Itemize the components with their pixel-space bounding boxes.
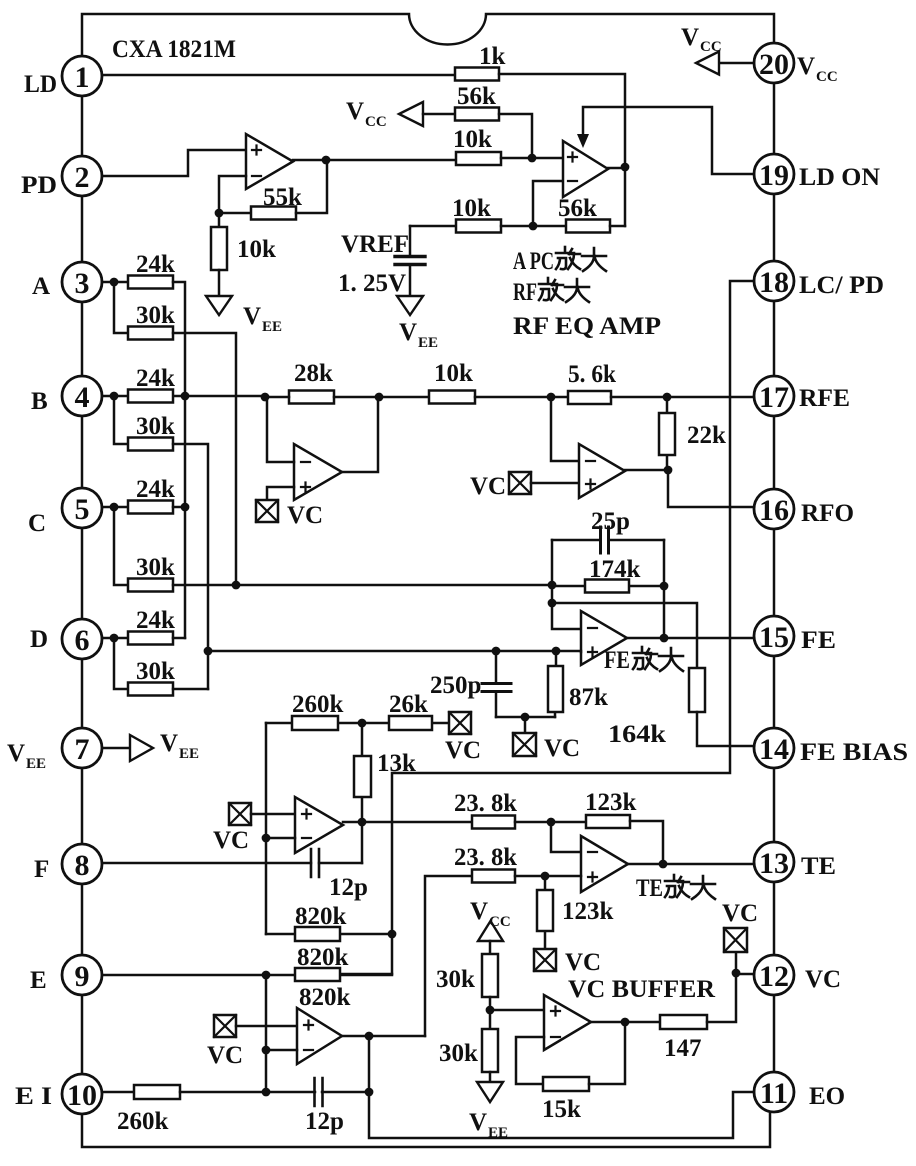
wire E minus column (265, 975, 268, 1092)
svg-text:V: V (469, 1109, 487, 1136)
resistor 28k (289, 360, 334, 404)
wire 28k to 10k (265, 396, 429, 399)
capacitor 250p (430, 651, 511, 717)
wire pin6 down to 30k D (114, 638, 128, 689)
svg-text:1. 25V: 1. 25V (338, 270, 406, 297)
svg-text:C: C (28, 510, 46, 537)
svg-text:164k: 164k (608, 721, 666, 748)
node VC junction below 87k (521, 713, 530, 722)
pin 12 (754, 955, 794, 995)
node FE minus row joins column (548, 581, 557, 590)
resistor 23.8k lower (454, 844, 517, 883)
svg-text:VC: VC (722, 900, 758, 927)
wire 24k C to bus (173, 506, 185, 509)
resistor 24k D (128, 607, 175, 645)
wire TE output to pin13 (628, 863, 754, 866)
svg-text:RFE: RFE (799, 385, 850, 412)
wire RF summing plus to VC (267, 487, 294, 500)
wire pin4 row to 28k (102, 395, 265, 398)
power VCC arrow buffer (470, 898, 511, 941)
wire 15k to output node (589, 1022, 625, 1084)
pin 16 (754, 489, 794, 529)
svg-text:FE: FE (604, 647, 630, 674)
wire pin5 to 24k C (102, 506, 128, 509)
resistor 26k (389, 691, 432, 730)
svg-text:123k: 123k (585, 789, 637, 816)
svg-text:24k: 24k (136, 607, 175, 634)
svg-text:EE: EE (488, 1125, 508, 1141)
wire pin6 to 24k D (102, 637, 128, 640)
resistor 24k C (128, 476, 175, 514)
pin 9 (62, 955, 102, 995)
vc symbol above pin12 (722, 900, 758, 952)
resistor 820k first (266, 903, 392, 941)
node bus C row (181, 503, 190, 512)
wire 250p to 87k bottom (496, 716, 555, 719)
wire 123k to TE output (630, 821, 663, 863)
wire pin4 down to 30k B (114, 396, 128, 444)
wire E output row (342, 1035, 425, 1038)
svg-text:EE: EE (179, 746, 199, 762)
resistor 30k D (128, 658, 175, 696)
svg-text:TE: TE (801, 853, 836, 880)
resistor 260k EI (117, 1085, 180, 1135)
svg-text:87k: 87k (569, 684, 608, 711)
node RFO output (664, 466, 673, 475)
node buffer divider (486, 1006, 495, 1015)
svg-text:11: 11 (760, 1077, 788, 1110)
pin 19 (754, 154, 794, 194)
svg-text:V: V (797, 53, 815, 80)
wire E output down to EO run (369, 1036, 754, 1138)
svg-text:V: V (399, 319, 417, 346)
svg-text:1: 1 (75, 61, 90, 94)
svg-text:24k: 24k (136, 251, 175, 278)
resistor 30k upper buffer (436, 941, 498, 997)
wire 12p up to F output row (361, 822, 364, 863)
wire 10k to 5.6k (475, 396, 568, 399)
svg-text:VREF: VREF (341, 231, 409, 258)
node pin3 fanout (110, 278, 119, 287)
svg-text:56k: 56k (457, 83, 496, 110)
wire F minus input (266, 837, 295, 840)
svg-text:8: 8 (75, 849, 90, 882)
wire 5.6k to pin17 RFE (611, 396, 754, 399)
wire pin3 down to 30k A (114, 282, 128, 333)
wire divider node (490, 997, 544, 1029)
capacitor 25p feedback (552, 508, 664, 553)
svg-text:24k: 24k (136, 365, 175, 392)
label TE amplifier (636, 875, 663, 902)
svg-text:LD: LD (24, 71, 57, 98)
svg-text:VC BUFFER: VC BUFFER (568, 976, 716, 1003)
svg-text:19: 19 (759, 159, 789, 192)
svg-text:820k: 820k (295, 903, 347, 930)
resistor 56k upper (455, 83, 499, 121)
node pin12 junction (732, 969, 741, 978)
svg-text:260k: 260k (117, 1108, 169, 1135)
svg-text:VC: VC (213, 827, 249, 854)
node pin5 fanout (110, 503, 119, 512)
svg-text:10k: 10k (453, 126, 492, 153)
svg-text:14: 14 (759, 733, 789, 766)
wire VCC arrow to 56k (423, 113, 455, 116)
resistor 820k second (295, 944, 392, 981)
svg-text:30k: 30k (436, 966, 475, 993)
svg-text:V: V (681, 24, 699, 51)
power VEE arrow pin7 (104, 730, 199, 762)
wire VC to RFO plus input (531, 482, 579, 485)
svg-text:15: 15 (759, 621, 789, 654)
pin 10 (62, 1074, 102, 1114)
op-amp FE (581, 611, 627, 665)
svg-text:26k: 26k (389, 691, 428, 718)
node 123k lower top (541, 872, 550, 881)
pin 1 (62, 56, 102, 96)
wire APC output (608, 167, 625, 170)
svg-text:EE: EE (26, 756, 46, 772)
resistor 10k RF (429, 360, 475, 404)
chip outline CXA1821M top border with index notch (82, 14, 774, 56)
wire 30k B to FE plus bus (173, 444, 208, 689)
wire TE minus input (551, 822, 581, 852)
pin 18 (754, 261, 794, 301)
svg-text:10k: 10k (237, 236, 276, 263)
wire VC to E amp plus (236, 1025, 297, 1028)
svg-text:RFO: RFO (801, 500, 854, 527)
chip outline right border segments (773, 83, 776, 1072)
wire 1k to APC output node (499, 74, 625, 226)
svg-text:5. 6k: 5. 6k (568, 361, 616, 388)
resistor 24k A (128, 251, 175, 289)
svg-text:V: V (160, 730, 178, 757)
svg-text:EE: EE (262, 319, 282, 335)
resistor 123k lower vertical (537, 876, 614, 949)
resistor 24k B (128, 365, 175, 403)
svg-text:28k: 28k (294, 360, 333, 387)
svg-text:F: F (34, 856, 49, 883)
svg-text:CC: CC (816, 69, 838, 85)
label hanzi fang-da after RF (539, 278, 589, 302)
resistor 1k (455, 43, 506, 81)
resistor 10k middle APC input (453, 126, 501, 165)
svg-text:CC: CC (700, 39, 722, 55)
wire 10k to APC plus (501, 157, 563, 160)
svg-text:30k: 30k (136, 413, 175, 440)
svg-text:VC: VC (287, 502, 323, 529)
wire minus node up to APC minus input (533, 181, 563, 226)
svg-text:E I: E I (15, 1083, 52, 1110)
node 30kA joins C row (232, 581, 241, 590)
svg-text:V: V (346, 98, 364, 125)
svg-text:24k: 24k (136, 476, 175, 503)
pin 13 (754, 842, 794, 882)
wire 10k to VEE arrow (218, 270, 221, 296)
wire pin1 to 1k (102, 74, 455, 77)
pin 14 (754, 728, 794, 768)
vc symbol F amp plus (213, 803, 251, 854)
wire 55k to PD output (296, 160, 327, 213)
wire pin8 to 12p (102, 862, 311, 865)
svg-text:A: A (32, 273, 50, 300)
op-amp PD (246, 134, 293, 189)
node 55k left (215, 209, 224, 218)
svg-text:12p: 12p (305, 1108, 344, 1135)
svg-text:RF EQ AMP: RF EQ AMP (513, 313, 661, 340)
pin 11 (754, 1072, 794, 1112)
resistor 10k lower APC (452, 195, 501, 233)
svg-text:LC/ PD: LC/ PD (799, 272, 884, 299)
node bus B row (181, 392, 190, 401)
pin 2 (62, 156, 102, 196)
node 13k top (358, 719, 367, 728)
svg-text:20: 20 (759, 48, 789, 81)
wire 23.8k to 123k (515, 821, 586, 824)
svg-text:23. 8k: 23. 8k (454, 844, 517, 871)
op-amp TE (581, 836, 628, 892)
node E minus (262, 1046, 271, 1055)
wire buffer minus feedback (516, 1037, 544, 1084)
ground VEE below 10k (206, 296, 282, 335)
resistor 5.6k (568, 361, 616, 404)
pin 15 (754, 616, 794, 656)
svg-text:D: D (30, 626, 48, 653)
node F minus (262, 834, 271, 843)
label hanzi fang-da after FE (633, 647, 683, 671)
pin 8 (62, 844, 102, 884)
wire 24k A to bus (173, 282, 185, 638)
svg-text:10k: 10k (452, 195, 491, 222)
node TE minus (547, 818, 556, 827)
resistor 23.8k upper (454, 790, 517, 829)
svg-text:V: V (470, 898, 488, 925)
op-amp E (297, 1008, 342, 1064)
svg-text:5: 5 (75, 493, 90, 526)
wire pin9 row (102, 974, 295, 977)
wire VREF to 10k lower (410, 225, 456, 228)
node 12p E right (365, 1088, 374, 1097)
wire E minus input (266, 1049, 297, 1052)
pin 6 (62, 619, 102, 659)
node pin6 fanout (110, 634, 119, 643)
wire 23.8k lower to TE plus (515, 875, 581, 878)
svg-text:18: 18 (759, 266, 789, 299)
op-amp APC U1 (563, 141, 608, 197)
pin 4 (62, 376, 102, 416)
svg-text:30k: 30k (136, 302, 175, 329)
node APC minus (529, 222, 538, 231)
svg-text:22k: 22k (687, 422, 726, 449)
wire 30k C row to FE amp minus column (173, 584, 552, 587)
svg-text:EE: EE (418, 335, 438, 351)
wire FE feedback right column (663, 540, 666, 638)
wire 10k lower to 56k lower (501, 225, 566, 228)
resistor 164k vertical (608, 668, 705, 748)
resistor 30k C (128, 554, 175, 592)
wire pin2 to PD amp plus input (102, 150, 246, 176)
capacitor 12p F (311, 849, 368, 901)
label 820k third (299, 984, 351, 1011)
svg-text:13: 13 (759, 847, 789, 880)
node 28k left (261, 393, 270, 402)
svg-text:12: 12 (759, 960, 789, 993)
IC name label CXA1821M (112, 36, 236, 63)
wire node to 55k (219, 212, 251, 215)
svg-text:VC: VC (445, 737, 481, 764)
svg-text:1k: 1k (479, 43, 506, 70)
wire 56k to APC plus node (499, 114, 532, 158)
svg-text:V: V (7, 740, 25, 767)
node F output junction (358, 818, 367, 827)
svg-text:55k: 55k (263, 184, 302, 211)
wire LD ON control with arrow into APC (577, 107, 754, 174)
svg-text:30k: 30k (136, 554, 175, 581)
node 28k right (375, 393, 384, 402)
node RFE (663, 393, 672, 402)
pin name labels left side (7, 71, 57, 1110)
wire RFO output (625, 469, 668, 472)
op-amp F (295, 797, 343, 853)
svg-text:RF: RF (513, 279, 537, 306)
wire 30k D to plus bus corner (173, 688, 208, 691)
pin 17 (754, 376, 794, 416)
wire 260k to 12p (180, 1091, 315, 1094)
svg-text:VC: VC (565, 949, 601, 976)
op-amp RF summing (294, 444, 342, 500)
wire 147 to pin12 (707, 952, 736, 1022)
wire pin3 to 24k A (102, 281, 128, 284)
resistor 15k (542, 1077, 589, 1123)
chip outline bottom border (82, 1112, 770, 1147)
pin name labels right side (797, 53, 908, 1110)
chip outline left border segments (81, 96, 84, 1074)
svg-text:VC: VC (470, 473, 506, 500)
wire FE output to pin15 (627, 637, 754, 640)
svg-text:FE: FE (801, 627, 836, 654)
op-amp VC buffer (544, 995, 591, 1050)
node buffer output (621, 1018, 630, 1027)
wire FE plus row (208, 651, 581, 652)
resistor 30k A (128, 302, 175, 340)
power VCC arrow at pin20 (681, 24, 754, 75)
svg-text:260k: 260k (292, 691, 344, 718)
node PD output (322, 156, 331, 165)
vc symbol after 26k (445, 712, 481, 764)
svg-text:CC: CC (489, 914, 511, 930)
node E output 12p junction (365, 1032, 374, 1041)
svg-text:B: B (31, 388, 48, 415)
resistor 55k (251, 184, 302, 220)
resistor 22k vertical (659, 397, 726, 470)
svg-text:2: 2 (75, 161, 90, 194)
svg-text:30k: 30k (439, 1040, 478, 1067)
wire RFO minus input (551, 397, 579, 461)
svg-text:30k: 30k (136, 658, 175, 685)
svg-text:FE BIAS: FE BIAS (800, 739, 908, 766)
svg-text:V: V (243, 303, 261, 330)
vc symbol E amp plus (207, 1015, 243, 1069)
svg-text:VC: VC (805, 966, 841, 993)
svg-text:TE: TE (636, 875, 663, 902)
svg-text:PD: PD (21, 172, 57, 199)
resistor 10k vertical PD (211, 227, 276, 270)
svg-text:16: 16 (759, 494, 789, 527)
wire PD amp output to 10k middle (293, 159, 456, 162)
svg-text:23. 8k: 23. 8k (454, 790, 517, 817)
svg-text:6: 6 (75, 624, 90, 657)
svg-text:56k: 56k (558, 195, 597, 222)
capacitor 12p E (305, 1078, 369, 1135)
svg-text:13k: 13k (377, 750, 416, 777)
svg-text:3: 3 (75, 267, 90, 300)
wire RF summing output feedback (342, 397, 378, 472)
wire VC to F amp plus (251, 813, 295, 816)
pin 20 (754, 43, 794, 83)
svg-text:820k: 820k (297, 944, 349, 971)
node APC plus (528, 154, 537, 163)
resistor 56k lower feedback (558, 195, 610, 233)
svg-text:CXA 1821M: CXA 1821M (112, 36, 236, 63)
svg-text:17: 17 (759, 381, 789, 414)
node 174k right (660, 582, 669, 591)
wire 164k to pin14 FE BIAS (697, 712, 754, 746)
svg-text:174k: 174k (589, 556, 641, 583)
wire node to pin12 (736, 973, 754, 976)
svg-text:15k: 15k (542, 1096, 581, 1123)
capacitor VREF (395, 226, 425, 296)
svg-text:147: 147 (664, 1035, 702, 1062)
resistor 147 (660, 1015, 707, 1062)
wire RFO output to pin16 (668, 470, 754, 507)
svg-text:250p: 250p (430, 672, 481, 699)
svg-text:12p: 12p (329, 874, 368, 901)
resistor 123k upper (585, 789, 637, 828)
node FE output column (660, 634, 669, 643)
node APC output (621, 163, 630, 172)
resistor 30k lower buffer (439, 1029, 498, 1072)
node VREF label (338, 231, 409, 297)
resistor 13k vertical (354, 723, 416, 822)
wire buffer output (591, 1021, 660, 1024)
wire 24k D to bus (173, 637, 185, 640)
wire pin10 to 260k (104, 1091, 134, 1094)
node TE feedback join (659, 860, 668, 869)
label hanzi fang-da after TE (665, 875, 715, 899)
node FE plus row left (204, 647, 213, 656)
wire PD amp minus input (219, 176, 246, 227)
vc symbol below 87k (513, 717, 580, 762)
svg-text:CC: CC (365, 114, 387, 130)
pin 5 (62, 488, 102, 528)
svg-text:9: 9 (75, 960, 90, 993)
svg-text:25p: 25p (591, 508, 630, 535)
svg-text:LD ON: LD ON (799, 164, 880, 191)
vc symbol below RF summing (256, 500, 323, 529)
wire FE bias row to 164k (552, 603, 697, 668)
node 250p top (492, 647, 501, 656)
wire 30k A to FE minus row (173, 333, 236, 586)
vc symbol below 123k lower (534, 949, 601, 976)
svg-text:123k: 123k (562, 898, 614, 925)
svg-text:4: 4 (75, 381, 90, 414)
svg-text:VC: VC (544, 735, 580, 762)
wire FE feedback left column (552, 540, 581, 629)
wire F output row to TE input (343, 821, 472, 824)
resistor 87k vertical (548, 651, 608, 717)
vc symbol RFO plus (470, 472, 531, 500)
svg-text:10: 10 (67, 1079, 97, 1112)
svg-text:E: E (30, 967, 47, 994)
